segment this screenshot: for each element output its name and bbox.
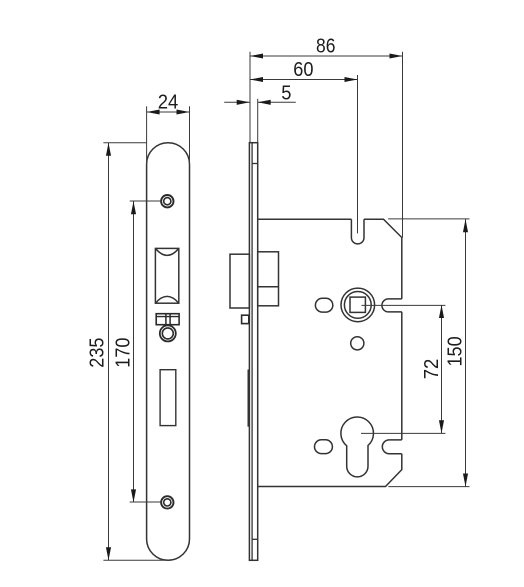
snib mechanism body (156, 314, 179, 325)
latch bolt head side view (230, 254, 249, 308)
dimension 86 arrow right (390, 53, 403, 58)
svg-text:170: 170 (113, 338, 135, 368)
dimension 72 line (441, 305, 443, 433)
dimension 5 arrow right outside (258, 100, 271, 105)
dimension 24 line (147, 111, 190, 113)
spindle square hole (350, 297, 365, 312)
dimension 150 line (465, 219, 467, 486)
dimension 72 extension at cylinder (361, 432, 445, 434)
dimension 60 line (250, 79, 358, 81)
bottom screw hole inner (164, 499, 171, 506)
svg-text:235: 235 (87, 338, 109, 368)
dimension 170 line (133, 201, 135, 502)
svg-text:150: 150 (444, 336, 466, 366)
dimension 5 right extension (257, 99, 259, 142)
dimension 170 arrow top (131, 201, 136, 214)
dimension 235 extension bottom (103, 559, 171, 561)
latch bolt top arc (155, 248, 178, 255)
side faceplate top tick (252, 163, 258, 165)
dimension 170 extension bottom (130, 501, 162, 503)
dimension 150 extension bottom (388, 486, 469, 488)
dimension 5 arrow left outside (237, 100, 250, 105)
dimension 5 right tail (258, 101, 296, 103)
side view faceplate outline (249, 143, 257, 561)
top screw hole outer (161, 195, 173, 207)
dimension 72 extension at spindle (362, 304, 446, 306)
latch housing side view (258, 252, 279, 306)
svg-text:5: 5 (281, 83, 291, 105)
dimension 235 arrow bottom (106, 547, 111, 560)
side faceplate seam line (251, 143, 253, 561)
bottom screw hole outer (161, 496, 173, 508)
dimension 72 arrow top (439, 305, 444, 318)
dimension 235 extension top (103, 142, 146, 144)
euro cylinder profile hole (341, 417, 374, 477)
spindle hub outer circle (341, 288, 375, 322)
faceplate front view outline (147, 143, 190, 561)
dimension 150 arrow top (463, 219, 468, 232)
spindle hub inner circle (344, 292, 371, 319)
dimension 86 60 5 common left extension (249, 52, 251, 142)
svg-text:86: 86 (316, 36, 335, 58)
dimension 24 extension line right (189, 106, 191, 166)
dimension 235 line (108, 143, 110, 561)
lower oval fixing hole (315, 440, 333, 454)
snib mechanism slot left line (165, 314, 167, 325)
top screw hole inner (164, 198, 171, 205)
upper oval fixing hole (315, 298, 332, 312)
deadbolt face side view (248, 370, 250, 427)
svg-text:60: 60 (293, 59, 313, 81)
dimension 86 arrow left (250, 53, 263, 58)
case right slot at spindle level (382, 299, 402, 312)
snib ring inner (162, 328, 173, 339)
dimension 60 arrow left (250, 77, 263, 82)
dimension 150 extension top (388, 218, 469, 220)
dimension 86 line (250, 55, 403, 57)
snib pin side view (242, 315, 249, 323)
dimension 150 arrow bottom (463, 474, 468, 487)
small circle hole below spindle (351, 337, 364, 350)
dimension 72 arrow bottom (439, 420, 444, 433)
side faceplate bottom tick (252, 538, 258, 540)
dimension 86 right extension (402, 52, 404, 238)
dimension 5 left tail (224, 101, 250, 103)
svg-text:24: 24 (158, 91, 179, 113)
dimension 170 extension top (130, 200, 162, 202)
dimension 170 arrow bottom (131, 489, 136, 502)
dimension 60 arrow right (345, 77, 358, 82)
snib mechanism top bar line (156, 316, 179, 318)
dimension 24 arrow right (177, 109, 190, 114)
case top slot at 60 (351, 219, 364, 244)
latch opening rectangle (155, 248, 178, 303)
deadbolt opening (160, 370, 176, 426)
dimension 24 extension line left (146, 106, 148, 166)
latch bolt bottom arc (155, 296, 178, 303)
snib mechanism slot right line (169, 314, 171, 325)
case right notch at cylinder level (382, 440, 401, 454)
svg-text:72: 72 (421, 359, 443, 380)
dimension 60 extension at slot (357, 75, 359, 233)
dimension 24 arrow left (147, 109, 160, 114)
dimension 235 arrow top (106, 143, 111, 156)
snib ring outer (160, 325, 176, 341)
latch housing divider (258, 286, 279, 288)
lock case outline (258, 219, 402, 486)
